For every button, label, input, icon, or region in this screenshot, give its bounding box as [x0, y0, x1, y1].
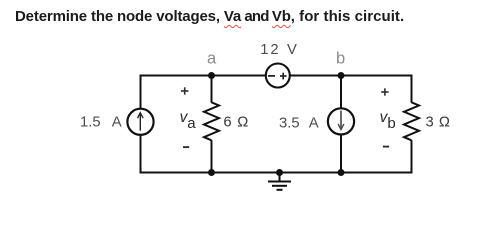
svg-text:Ω: Ω: [237, 114, 248, 130]
polarity minus for va: [183, 146, 189, 148]
svg-text:b: b: [336, 50, 345, 68]
polarity plus for vb: [381, 88, 388, 95]
wire top left segment: [140, 75, 213, 77]
polarity minus for vb: [383, 146, 389, 148]
ground symbol: [268, 173, 291, 190]
current source I1 1.5A circle: [127, 109, 153, 135]
current source I2 arrow down: [338, 111, 344, 130]
svg-text:b: b: [387, 115, 395, 132]
svg-text:a: a: [187, 115, 196, 132]
voltage source V1 plus sign: [280, 73, 287, 80]
bottom junction dot under 6 ohm: [208, 169, 215, 176]
wire 6ohm branch top lead: [211, 76, 213, 103]
wire middle branch (3.5A): [340, 76, 342, 173]
polarity plus for va: [181, 87, 188, 94]
current source I2 3.5A circle: [328, 108, 354, 134]
wire left branch: [140, 75, 142, 174]
svg-text:6: 6: [223, 114, 231, 130]
wire top middle segment: [212, 75, 342, 77]
svg-text:V: V: [287, 42, 297, 58]
svg-text:Ω: Ω: [439, 114, 450, 130]
wire bottom: [140, 172, 413, 174]
bottom junction dot under 3.5A: [338, 169, 345, 176]
resistor R1 6 ohm zigzag: [204, 102, 219, 140]
svg-text:1.5: 1.5: [80, 115, 101, 131]
node b junction dot: [338, 72, 345, 79]
bottom junction dot ground node: [276, 169, 283, 176]
wire top right segment: [341, 75, 413, 77]
wire 6ohm branch bottom lead: [211, 140, 213, 172]
svg-text:a: a: [207, 50, 217, 68]
title text: [15, 9, 404, 24]
voltage source V1 minus sign: [268, 75, 275, 77]
svg-text:A: A: [309, 116, 319, 132]
current source I1 arrow up: [138, 113, 144, 131]
svg-text:12: 12: [260, 42, 280, 58]
resistor R2 3 ohm zigzag: [404, 102, 419, 140]
wire 3ohm branch top lead: [411, 75, 413, 103]
wire 3ohm branch bottom lead: [411, 140, 413, 173]
svg-text:3.5: 3.5: [279, 116, 300, 132]
voltage source V1 12V circle: [266, 64, 290, 88]
svg-text:3: 3: [426, 114, 434, 130]
node a junction dot: [208, 72, 215, 79]
svg-text:A: A: [112, 115, 122, 131]
